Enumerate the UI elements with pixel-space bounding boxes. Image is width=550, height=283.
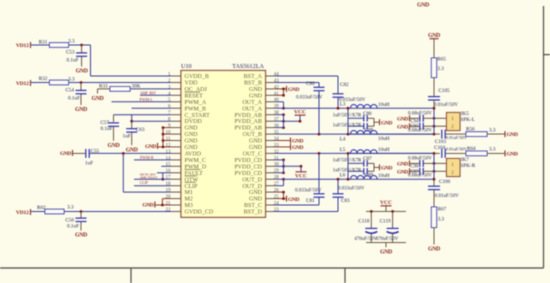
svg-text:PVDD_AB: PVDD_AB (234, 119, 262, 125)
svg-text:33: 33 (274, 143, 280, 148)
svg-text:34: 34 (274, 137, 280, 142)
svg-text:C98: C98 (365, 128, 374, 134)
svg-text:GND: GND (108, 143, 120, 149)
svg-text:GND: GND (249, 197, 263, 203)
svg-text:GND: GND (292, 145, 303, 151)
svg-text:R62: R62 (37, 205, 46, 211)
svg-text:VCC: VCC (295, 173, 307, 179)
svg-text:PWM-L: PWM-L (140, 97, 154, 102)
svg-text:C82: C82 (340, 82, 349, 88)
svg-text:0.01uF/50V: 0.01uF/50V (446, 135, 468, 140)
svg-text:GND: GND (185, 126, 199, 132)
svg-text:30: 30 (274, 163, 280, 168)
svg-text:31: 31 (274, 156, 280, 161)
svg-text:AMP_RST: AMP_RST (140, 91, 157, 95)
svg-text:OUT_A: OUT_A (242, 100, 262, 106)
svg-text:GND: GND (288, 87, 299, 93)
svg-text:10uH: 10uH (378, 136, 390, 142)
svg-text:19: 19 (166, 189, 172, 194)
svg-text:C83: C83 (341, 198, 350, 204)
svg-text:0.033uF/50V: 0.033uF/50V (296, 96, 323, 101)
svg-text:44: 44 (274, 72, 280, 77)
svg-text:39: 39 (274, 105, 280, 110)
svg-text:28: 28 (274, 176, 280, 181)
svg-text:SPK-R: SPK-R (461, 163, 476, 169)
svg-text:L5: L5 (340, 147, 346, 153)
svg-text:10uH: 10uH (378, 147, 390, 153)
svg-text:14: 14 (166, 156, 172, 161)
svg-text:BST_B: BST_B (244, 81, 262, 87)
svg-text:PVDD_AB: PVDD_AB (234, 113, 262, 119)
svg-text:40: 40 (274, 98, 280, 103)
svg-text:41: 41 (274, 92, 280, 97)
svg-text:PVDD_AB: PVDD_AB (234, 126, 262, 132)
svg-text:1uF/50V/X7R: 1uF/50V/X7R (333, 159, 362, 164)
svg-text:36: 36 (274, 124, 280, 129)
svg-text:OUT_D: OUT_D (242, 184, 262, 190)
svg-text:GND: GND (76, 69, 88, 75)
svg-text:GND: GND (288, 197, 299, 203)
svg-text:43: 43 (274, 79, 280, 84)
svg-text:0.1uF: 0.1uF (101, 126, 113, 132)
svg-text:GND: GND (249, 190, 263, 196)
svg-text:C94: C94 (410, 119, 419, 124)
svg-text:24: 24 (274, 201, 280, 206)
svg-text:32: 32 (274, 150, 280, 155)
svg-text:GND: GND (507, 132, 518, 138)
svg-text:12: 12 (166, 143, 172, 148)
svg-text:BST_A: BST_A (244, 74, 263, 80)
svg-text:3.3: 3.3 (438, 216, 445, 222)
svg-text:OUT_C: OUT_C (243, 152, 262, 158)
svg-text:OUT_B: OUT_B (243, 132, 262, 138)
svg-text:C54: C54 (65, 88, 74, 94)
svg-text:GND: GND (185, 139, 199, 145)
svg-text:0.033uF/50V: 0.033uF/50V (338, 187, 365, 192)
svg-text:VDD: VDD (185, 81, 199, 87)
svg-text:L3: L3 (340, 102, 346, 108)
svg-text:AVDD: AVDD (185, 152, 202, 158)
svg-text:18: 18 (166, 182, 172, 187)
svg-text:RESET: RESET (185, 93, 204, 99)
svg-text:29: 29 (274, 169, 280, 174)
svg-text:AMP_FAULT: AMP_FAULT (140, 175, 159, 179)
svg-text:1uF: 1uF (123, 133, 131, 139)
svg-text:23: 23 (274, 208, 280, 213)
svg-text:R56: R56 (466, 126, 475, 132)
svg-text:GND: GND (380, 250, 392, 256)
svg-text:GND: GND (292, 139, 303, 145)
svg-text:37: 37 (274, 118, 280, 123)
svg-text:GND: GND (60, 151, 71, 157)
svg-text:0.1uF: 0.1uF (67, 223, 79, 229)
svg-text:GND: GND (142, 203, 153, 209)
svg-text:GND: GND (185, 145, 199, 151)
svg-text:0.68uF/50V: 0.68uF/50V (408, 157, 432, 162)
svg-text:R67: R67 (438, 206, 447, 212)
svg-text:VD12: VD12 (16, 43, 29, 49)
svg-text:PWM-R: PWM-R (140, 155, 154, 160)
svg-text:R32: R32 (39, 76, 48, 82)
svg-text:CLIP: CLIP (140, 181, 148, 185)
svg-text:PVDD_CD: PVDD_CD (234, 171, 262, 177)
svg-text:DVDD: DVDD (185, 119, 203, 125)
svg-text:38: 38 (274, 111, 280, 116)
svg-text:0.01uF/50V: 0.01uF/50V (446, 146, 468, 151)
svg-text:1uF/50V/X7R: 1uF/50V/X7R (333, 169, 362, 174)
svg-text:3.3: 3.3 (67, 205, 74, 211)
svg-text:R31: R31 (39, 39, 48, 45)
svg-text:25: 25 (274, 195, 280, 200)
svg-text:C104: C104 (434, 145, 446, 151)
svg-text:1uF/50V/X7R: 1uF/50V/X7R (333, 114, 362, 119)
svg-text:R33: R33 (99, 83, 108, 89)
svg-text:GND: GND (381, 121, 392, 127)
svg-text:VCC: VCC (380, 200, 392, 206)
svg-text:C118: C118 (358, 219, 369, 225)
svg-text:GND: GND (249, 93, 263, 99)
svg-text:16: 16 (166, 169, 172, 174)
svg-text:C97: C97 (410, 170, 419, 175)
svg-text:3.3: 3.3 (68, 76, 75, 82)
svg-text:17: 17 (166, 176, 172, 181)
svg-text:C80: C80 (306, 81, 315, 87)
svg-text:C53: C53 (66, 49, 75, 55)
svg-text:C_START: C_START (185, 113, 210, 119)
svg-text:10: 10 (166, 131, 172, 136)
svg-text:C99: C99 (365, 173, 374, 179)
svg-text:1uF: 1uF (85, 160, 93, 166)
svg-text:M3: M3 (185, 203, 193, 209)
svg-text:GND: GND (126, 147, 138, 153)
svg-text:GND: GND (397, 117, 408, 123)
svg-text:GND: GND (397, 162, 408, 168)
svg-text:C119: C119 (380, 219, 391, 225)
svg-text:21: 21 (166, 201, 172, 206)
svg-text:BST_D: BST_D (244, 210, 263, 216)
svg-text:30K: 30K (132, 84, 141, 90)
svg-text:C95: C95 (410, 125, 419, 130)
svg-text:U10: U10 (181, 63, 192, 70)
svg-text:TAS5612LA: TAS5612LA (232, 63, 264, 70)
svg-text:C105: C105 (438, 88, 450, 94)
svg-text:VD12: VD12 (16, 81, 29, 87)
svg-text:GND: GND (75, 233, 87, 239)
svg-text:VD12: VD12 (16, 210, 29, 216)
svg-text:C96: C96 (410, 165, 419, 170)
svg-text:PWM_B: PWM_B (185, 106, 206, 112)
svg-text:OUT_A: OUT_A (242, 106, 262, 112)
svg-text:27: 27 (274, 182, 280, 187)
svg-text:GVDD_CD: GVDD_CD (185, 210, 214, 216)
svg-text:M1: M1 (185, 190, 193, 196)
svg-text:PWM_C: PWM_C (185, 158, 206, 164)
svg-text:0.01uF/50V: 0.01uF/50V (434, 103, 458, 108)
svg-text:GND: GND (75, 107, 87, 113)
svg-text:GND: GND (381, 166, 392, 172)
svg-text:VCC: VCC (294, 109, 306, 115)
svg-text:C81: C81 (306, 198, 315, 204)
svg-text:0.1uF: 0.1uF (67, 57, 79, 63)
svg-text:BST_C: BST_C (244, 203, 262, 209)
svg-text:C87: C87 (363, 156, 372, 162)
svg-text:10uH: 10uH (378, 173, 390, 179)
svg-text:R65: R65 (437, 57, 446, 63)
svg-text:GVDD_B: GVDD_B (185, 74, 209, 80)
svg-text:470uF/50V: 470uF/50V (376, 237, 399, 242)
svg-text:0.01uF/50V: 0.01uF/50V (435, 194, 459, 199)
svg-text:3.3: 3.3 (68, 39, 75, 45)
svg-text:15: 15 (166, 163, 172, 168)
svg-text:L4: L4 (340, 137, 346, 143)
svg-text:GND: GND (185, 132, 199, 138)
svg-text:PVDD_CD: PVDD_CD (234, 158, 262, 164)
svg-text:0.033uF/50V: 0.033uF/50V (295, 189, 322, 194)
svg-text:C86: C86 (363, 111, 372, 117)
svg-text:C55: C55 (91, 148, 100, 154)
svg-text:GND: GND (428, 247, 440, 253)
svg-text:0.1uF: 0.1uF (68, 96, 80, 102)
svg-text:22: 22 (166, 208, 172, 213)
svg-text:3.3: 3.3 (489, 147, 496, 153)
svg-text:26: 26 (274, 189, 280, 194)
svg-text:10uH: 10uH (378, 102, 390, 108)
svg-text:C57: C57 (100, 120, 109, 126)
svg-text:GND: GND (507, 152, 518, 158)
svg-text:GND: GND (249, 139, 263, 145)
svg-text:OUT_D: OUT_D (242, 177, 262, 183)
svg-text:PWM_A: PWM_A (185, 100, 207, 106)
svg-text:SPK-L: SPK-L (461, 117, 475, 123)
svg-text:PVDD_CD: PVDD_CD (234, 164, 262, 170)
svg-text:3.3: 3.3 (489, 127, 496, 133)
svg-text:11: 11 (166, 137, 171, 142)
svg-text:470uF/50V: 470uF/50V (354, 237, 377, 242)
svg-text:GND: GND (92, 96, 104, 102)
svg-text:35: 35 (274, 131, 280, 136)
svg-text:3.3: 3.3 (437, 66, 444, 72)
svg-text:13: 13 (166, 150, 172, 155)
svg-text:20: 20 (166, 195, 172, 200)
svg-text:GND: GND (249, 145, 263, 151)
svg-text:GND: GND (249, 87, 263, 93)
svg-text:GND: GND (397, 170, 408, 176)
svg-text:CLIP: CLIP (185, 184, 199, 190)
svg-text:0.68uF/50V: 0.68uF/50V (408, 111, 432, 116)
svg-text:R64: R64 (467, 146, 476, 152)
svg-text:C63: C63 (136, 127, 145, 133)
svg-text:42: 42 (274, 85, 280, 90)
svg-text:C106: C106 (439, 179, 451, 185)
svg-text:1uF/50V/X7R: 1uF/50V/X7R (333, 124, 362, 129)
svg-text:M2: M2 (185, 197, 193, 203)
svg-text:GND: GND (428, 33, 440, 39)
svg-text:GND: GND (417, 2, 429, 8)
svg-text:GND: GND (397, 124, 408, 130)
svg-text:GND: GND (145, 144, 156, 150)
